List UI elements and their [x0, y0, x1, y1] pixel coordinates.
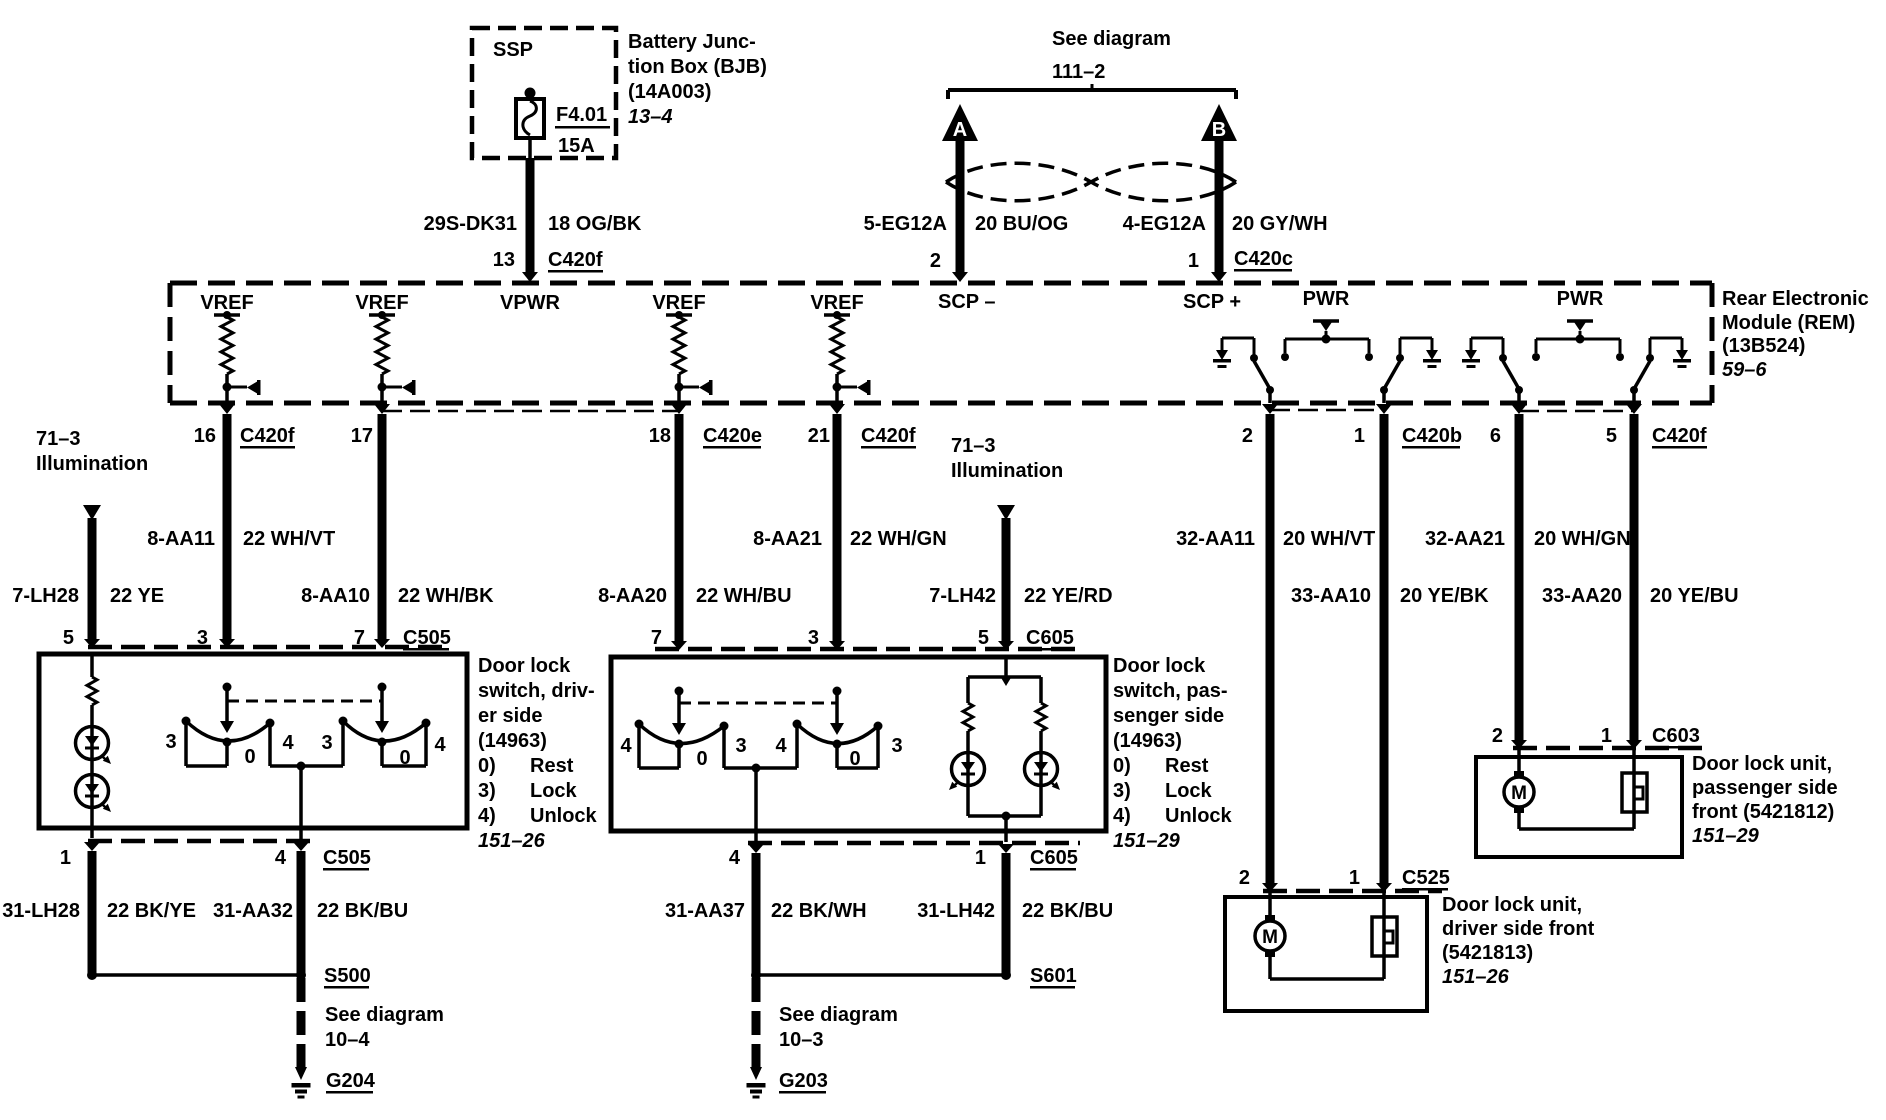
svg-text:Unlock: Unlock — [1165, 805, 1233, 827]
svg-text:3: 3 — [735, 735, 746, 757]
svg-text:20 YE/BK: 20 YE/BK — [1400, 585, 1489, 607]
svg-text:4: 4 — [275, 847, 287, 869]
svg-text:13–4: 13–4 — [628, 106, 673, 128]
svg-text:0): 0) — [1113, 755, 1131, 777]
svg-text:1: 1 — [1601, 725, 1612, 747]
svg-text:3): 3) — [1113, 780, 1131, 802]
svg-text:Door lock: Door lock — [1113, 655, 1206, 677]
svg-text:21: 21 — [808, 425, 830, 447]
svg-text:C420f: C420f — [548, 249, 603, 271]
svg-text:4): 4) — [478, 805, 496, 827]
svg-text:0): 0) — [478, 755, 496, 777]
svg-text:111–2: 111–2 — [1052, 61, 1105, 83]
svg-text:switch, pas-: switch, pas- — [1113, 680, 1227, 702]
svg-text:18 OG/BK: 18 OG/BK — [548, 213, 642, 235]
svg-text:59–6: 59–6 — [1722, 359, 1767, 381]
svg-text:3: 3 — [321, 732, 332, 754]
svg-text:0: 0 — [696, 748, 707, 770]
svg-text:20 GY/WH: 20 GY/WH — [1232, 213, 1328, 235]
svg-text:Illumination: Illumination — [951, 460, 1063, 482]
svg-text:(14963): (14963) — [478, 730, 547, 752]
svg-text:er side: er side — [478, 705, 542, 727]
svg-text:driver side front: driver side front — [1442, 918, 1595, 940]
svg-text:151–29: 151–29 — [1113, 830, 1181, 852]
svg-text:22 WH/BU: 22 WH/BU — [696, 585, 792, 607]
svg-text:SSP: SSP — [493, 39, 533, 61]
svg-text:4: 4 — [620, 735, 632, 757]
svg-text:SCP –: SCP – — [938, 291, 995, 313]
svg-text:7-LH42: 7-LH42 — [929, 585, 996, 607]
svg-text:3): 3) — [478, 780, 496, 802]
svg-text:M: M — [1262, 927, 1278, 948]
svg-text:1: 1 — [1354, 425, 1365, 447]
svg-text:22 BK/BU: 22 BK/BU — [1022, 900, 1113, 922]
svg-text:Rest: Rest — [530, 755, 574, 777]
svg-text:4: 4 — [282, 732, 294, 754]
svg-text:Battery Junc-: Battery Junc- — [628, 31, 756, 53]
svg-text:151–26: 151–26 — [1442, 966, 1510, 988]
svg-text:5: 5 — [1606, 425, 1617, 447]
svg-text:10–4: 10–4 — [325, 1029, 370, 1051]
svg-text:senger side: senger side — [1113, 705, 1224, 727]
svg-text:A: A — [953, 119, 967, 141]
svg-text:C525: C525 — [1402, 867, 1450, 889]
svg-text:2: 2 — [930, 250, 941, 272]
svg-text:G204: G204 — [326, 1070, 376, 1092]
svg-text:5: 5 — [63, 627, 74, 649]
svg-text:31-AA32: 31-AA32 — [213, 900, 293, 922]
svg-text:G203: G203 — [779, 1070, 828, 1092]
svg-text:S500: S500 — [324, 965, 371, 987]
svg-text:PWR: PWR — [1557, 288, 1604, 310]
svg-text:Unlock: Unlock — [530, 805, 598, 827]
svg-text:C420e: C420e — [703, 425, 762, 447]
svg-text:C603: C603 — [1652, 725, 1700, 747]
svg-text:1: 1 — [1349, 867, 1360, 889]
svg-text:C420f: C420f — [1652, 425, 1707, 447]
svg-text:29S-DK31: 29S-DK31 — [424, 213, 517, 235]
svg-text:Door lock unit,: Door lock unit, — [1442, 894, 1582, 916]
svg-text:22 WH/VT: 22 WH/VT — [243, 528, 335, 550]
svg-text:8-AA21: 8-AA21 — [753, 528, 822, 550]
svg-text:4-EG12A: 4-EG12A — [1123, 213, 1206, 235]
svg-text:22 BK/WH: 22 BK/WH — [771, 900, 867, 922]
svg-text:33-AA10: 33-AA10 — [1291, 585, 1371, 607]
svg-text:0: 0 — [399, 747, 410, 769]
svg-text:front (5421812): front (5421812) — [1692, 801, 1834, 823]
svg-text:Lock: Lock — [530, 780, 578, 802]
svg-text:71–3: 71–3 — [951, 435, 996, 457]
svg-text:1: 1 — [1188, 250, 1199, 272]
svg-text:VREF: VREF — [200, 292, 253, 314]
svg-text:13: 13 — [493, 249, 515, 271]
svg-text:2: 2 — [1242, 425, 1253, 447]
svg-text:32-AA21: 32-AA21 — [1425, 528, 1505, 550]
svg-text:Door lock: Door lock — [478, 655, 571, 677]
svg-text:0: 0 — [244, 746, 255, 768]
svg-text:3: 3 — [891, 735, 902, 757]
svg-text:C420f: C420f — [240, 425, 295, 447]
svg-text:5: 5 — [978, 627, 989, 649]
svg-text:Illumination: Illumination — [36, 453, 148, 475]
svg-text:(14A003): (14A003) — [628, 81, 711, 103]
svg-text:31-AA37: 31-AA37 — [665, 900, 745, 922]
svg-text:0: 0 — [849, 748, 860, 770]
svg-text:tion Box (BJB): tion Box (BJB) — [628, 56, 767, 78]
svg-text:31-LH28: 31-LH28 — [2, 900, 80, 922]
svg-text:C605: C605 — [1030, 847, 1078, 869]
svg-text:S601: S601 — [1030, 965, 1077, 987]
svg-text:VREF: VREF — [355, 292, 408, 314]
svg-text:C420c: C420c — [1234, 248, 1293, 270]
svg-text:switch, driv-: switch, driv- — [478, 680, 595, 702]
svg-text:71–3: 71–3 — [36, 428, 81, 450]
svg-text:4: 4 — [434, 734, 446, 756]
svg-text:20 BU/OG: 20 BU/OG — [975, 213, 1068, 235]
svg-text:Door lock unit,: Door lock unit, — [1692, 753, 1832, 775]
svg-text:(13B524): (13B524) — [1722, 335, 1805, 357]
svg-text:5-EG12A: 5-EG12A — [864, 213, 947, 235]
svg-text:B: B — [1212, 119, 1226, 141]
svg-text:151–29: 151–29 — [1692, 825, 1760, 847]
svg-text:16: 16 — [194, 425, 216, 447]
svg-text:F4.01: F4.01 — [556, 104, 607, 126]
svg-text:3: 3 — [165, 731, 176, 753]
svg-text:(14963): (14963) — [1113, 730, 1182, 752]
svg-text:3: 3 — [197, 627, 208, 649]
svg-text:20 WH/VT: 20 WH/VT — [1283, 528, 1375, 550]
svg-text:10–3: 10–3 — [779, 1029, 824, 1051]
svg-text:Rest: Rest — [1165, 755, 1209, 777]
svg-text:(5421813): (5421813) — [1442, 942, 1533, 964]
svg-text:22 YE: 22 YE — [110, 585, 164, 607]
svg-text:1: 1 — [975, 847, 986, 869]
svg-text:VREF: VREF — [810, 292, 863, 314]
svg-text:3: 3 — [808, 627, 819, 649]
svg-text:22 WH/BK: 22 WH/BK — [398, 585, 494, 607]
svg-text:15A: 15A — [558, 135, 595, 157]
svg-text:22 YE/RD: 22 YE/RD — [1024, 585, 1113, 607]
svg-text:passenger side: passenger side — [1692, 777, 1838, 799]
svg-text:20 YE/BU: 20 YE/BU — [1650, 585, 1739, 607]
svg-text:8-AA10: 8-AA10 — [301, 585, 370, 607]
svg-text:2: 2 — [1239, 867, 1250, 889]
svg-text:1: 1 — [60, 847, 71, 869]
svg-text:22 BK/YE: 22 BK/YE — [107, 900, 196, 922]
svg-text:8-AA20: 8-AA20 — [598, 585, 667, 607]
svg-text:VPWR: VPWR — [500, 292, 561, 314]
svg-text:18: 18 — [649, 425, 671, 447]
svg-text:32-AA11: 32-AA11 — [1176, 528, 1255, 550]
svg-text:33-AA20: 33-AA20 — [1542, 585, 1622, 607]
svg-text:31-LH42: 31-LH42 — [917, 900, 995, 922]
svg-text:VREF: VREF — [652, 292, 705, 314]
svg-text:2: 2 — [1492, 725, 1503, 747]
svg-text:C505: C505 — [323, 847, 371, 869]
svg-text:PWR: PWR — [1303, 288, 1350, 310]
svg-text:7-LH28: 7-LH28 — [12, 585, 79, 607]
svg-text:Module (REM): Module (REM) — [1722, 312, 1855, 334]
svg-text:C605: C605 — [1026, 627, 1074, 649]
svg-text:C505: C505 — [403, 627, 451, 649]
svg-text:22 WH/GN: 22 WH/GN — [850, 528, 947, 550]
svg-text:C420f: C420f — [861, 425, 916, 447]
svg-text:8-AA11: 8-AA11 — [147, 528, 215, 550]
svg-text:4): 4) — [1113, 805, 1131, 827]
svg-text:SCP +: SCP + — [1183, 291, 1241, 313]
svg-text:22 BK/BU: 22 BK/BU — [317, 900, 408, 922]
svg-text:4: 4 — [775, 735, 787, 757]
svg-text:20 WH/GN: 20 WH/GN — [1534, 528, 1631, 550]
svg-text:Lock: Lock — [1165, 780, 1213, 802]
svg-text:151–26: 151–26 — [478, 830, 546, 852]
svg-text:See diagram: See diagram — [779, 1004, 898, 1026]
svg-text:C420b: C420b — [1402, 425, 1462, 447]
svg-text:4: 4 — [729, 847, 741, 869]
svg-text:Rear Electronic: Rear Electronic — [1722, 288, 1869, 310]
svg-text:M: M — [1511, 783, 1527, 804]
svg-text:6: 6 — [1490, 425, 1501, 447]
svg-text:See diagram: See diagram — [325, 1004, 444, 1026]
svg-text:7: 7 — [651, 627, 662, 649]
svg-text:17: 17 — [351, 425, 373, 447]
svg-text:7: 7 — [354, 627, 365, 649]
svg-text:See diagram: See diagram — [1052, 28, 1171, 50]
